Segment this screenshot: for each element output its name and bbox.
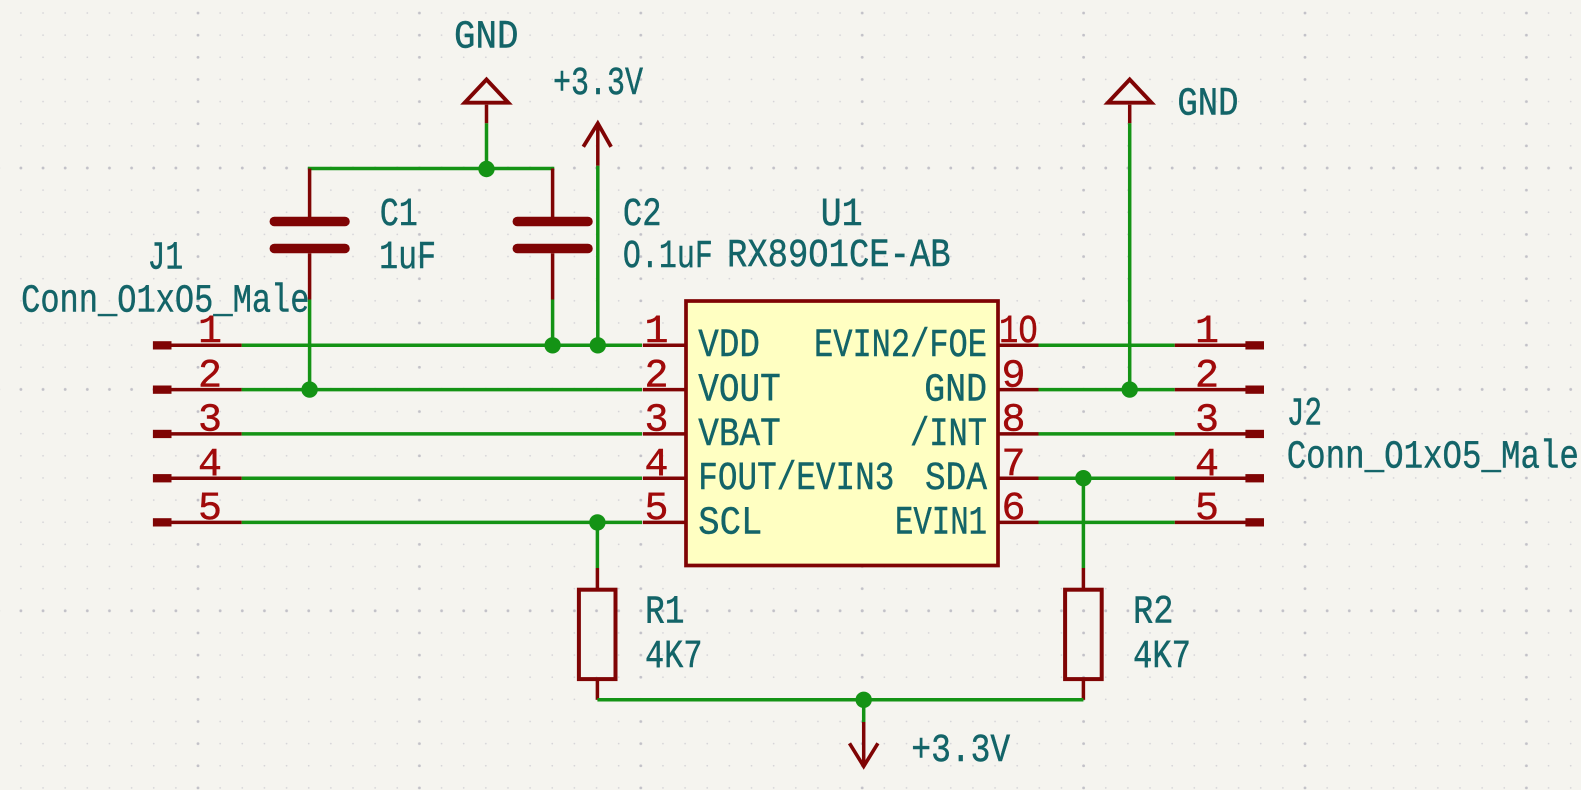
- svg-text:6: 6: [1002, 487, 1026, 532]
- svg-text:Conn_O1xO5_Male: Conn_O1xO5_Male: [1287, 436, 1579, 481]
- connector J2 pin 1: [1175, 310, 1264, 355]
- ground symbol (top left): [465, 80, 509, 124]
- U1 pin 4 (FOUT/EVIN3): [643, 443, 895, 502]
- svg-text:5: 5: [198, 487, 222, 532]
- ground symbol (top right): [1108, 80, 1152, 124]
- svg-text:4K7: 4K7: [1133, 635, 1191, 680]
- connector J2 pin 2: [1175, 354, 1264, 399]
- capacitor C2: [517, 169, 588, 300]
- svg-text:2: 2: [1195, 354, 1219, 399]
- svg-text:EVIN2/FOE: EVIN2/FOE: [814, 324, 987, 369]
- U1 pin 9 (GND): [924, 354, 1038, 413]
- svg-text:3: 3: [198, 399, 222, 444]
- svg-text:1O: 1O: [999, 310, 1038, 355]
- resistor R1: [579, 568, 616, 700]
- svg-text:4: 4: [1195, 443, 1219, 488]
- svg-text:J2: J2: [1287, 392, 1322, 437]
- wire J1 pin 4 to U1 FOUT/EVIN3: [242, 476, 642, 480]
- connector J2 pin 4: [1175, 443, 1264, 488]
- connector J2 pin 3: [1175, 399, 1264, 444]
- svg-text:SDA: SDA: [925, 457, 987, 502]
- svg-text:J1: J1: [148, 237, 184, 282]
- resistor R2: [1065, 568, 1102, 700]
- svg-text:O.1uF: O.1uF: [623, 235, 713, 280]
- connector J1 pin 3: [153, 399, 242, 444]
- U1 pin 5 (SCL): [643, 487, 763, 546]
- wire U1 EVIN2/FOE to J2 pin 1: [1039, 344, 1175, 348]
- svg-text:Conn_O1xO5_Male: Conn_O1xO5_Male: [21, 280, 309, 325]
- connector J1 pin 4: [153, 443, 242, 488]
- svg-text:R1: R1: [645, 591, 685, 636]
- wire C2 bottom to VDD net: [551, 300, 555, 346]
- svg-text:GND: GND: [924, 369, 987, 414]
- wire U1 /INT to J2 pin 3: [1039, 432, 1175, 436]
- power symbol +3.3V (bottom, pointing down): [850, 722, 878, 766]
- junction at GND / top rail: [478, 161, 494, 177]
- svg-text:FOUT/EVIN3: FOUT/EVIN3: [698, 457, 894, 502]
- wire U1 GND to J2 pin 2: [1039, 388, 1175, 392]
- svg-text:VDD: VDD: [698, 324, 760, 369]
- svg-text:/INT: /INT: [910, 413, 987, 458]
- wire U1 SDA to J2 pin 4: [1039, 476, 1175, 480]
- wire J1 pin 1 to U1 VDD: [242, 344, 642, 348]
- svg-text:EVIN1: EVIN1: [895, 501, 987, 546]
- capacitor C1: [274, 169, 345, 300]
- wire top rail between C1 and C2: [308, 167, 554, 171]
- wire bottom rail R1 to R2: [597, 698, 1083, 702]
- wire SDA net down to R2: [1082, 478, 1086, 568]
- power symbol +3.3V (top): [583, 123, 611, 166]
- svg-text:5: 5: [644, 487, 668, 532]
- wire from GND symbol down to top rail: [485, 123, 489, 168]
- wire SCL net down to R1: [596, 522, 600, 568]
- wire J1 pin 5 to U1 SCL: [242, 521, 642, 525]
- svg-text:1: 1: [644, 310, 668, 355]
- wire J1 pin 2 to U1 VOUT: [242, 388, 642, 392]
- svg-text:2: 2: [198, 354, 222, 399]
- connector J2 pin 5: [1175, 487, 1264, 532]
- svg-text:VBAT: VBAT: [698, 413, 781, 458]
- svg-text:VOUT: VOUT: [698, 369, 781, 414]
- svg-text:9: 9: [1002, 354, 1026, 399]
- junction +3.3V / VDD net: [590, 337, 606, 353]
- junction GND wire / GND net: [1122, 381, 1138, 397]
- junction SCL / R1: [589, 514, 605, 530]
- junction bottom rail / +3.3V: [856, 692, 872, 708]
- junction SDA / R2: [1075, 470, 1091, 486]
- svg-text:7: 7: [1002, 443, 1026, 488]
- svg-text:RX89O1CE-AB: RX89O1CE-AB: [727, 234, 951, 279]
- svg-text:U1: U1: [821, 193, 863, 238]
- svg-text:1: 1: [1195, 310, 1219, 355]
- svg-text:4: 4: [198, 443, 222, 488]
- IC U1 body: [686, 301, 998, 566]
- svg-text:R2: R2: [1133, 591, 1174, 636]
- svg-text:3: 3: [1195, 399, 1219, 444]
- wire junction down to +3.3V symbol: [862, 700, 866, 722]
- connector J1 pin 1: [153, 310, 242, 355]
- svg-text:SCL: SCL: [698, 501, 762, 546]
- svg-text:C1: C1: [380, 193, 418, 238]
- wire +3.3V down to VDD net: [596, 166, 600, 345]
- svg-text:4: 4: [644, 443, 668, 488]
- U1 pin 8 (/INT): [910, 399, 1039, 458]
- U1 pin 2 (VOUT): [643, 354, 781, 413]
- svg-text:GND: GND: [1177, 82, 1238, 127]
- svg-text:C2: C2: [623, 193, 662, 238]
- svg-text:3: 3: [644, 399, 668, 444]
- wire J1 pin 3 to U1 VBAT: [242, 432, 642, 436]
- junction C2 / VDD net: [544, 337, 560, 353]
- U1 pin 10 (EVIN2/FOE): [814, 310, 1039, 369]
- svg-text:2: 2: [644, 354, 668, 399]
- svg-text:5: 5: [1195, 487, 1219, 532]
- connector J1 pin 2: [153, 354, 242, 399]
- svg-text:4K7: 4K7: [645, 635, 703, 680]
- junction C1 / VOUT net: [301, 381, 317, 397]
- U1 pin 3 (VBAT): [643, 399, 781, 458]
- wire U1 EVIN1 to J2 pin 5: [1039, 521, 1175, 525]
- U1 pin 7 (SDA): [925, 443, 1039, 502]
- svg-text:+3.3V: +3.3V: [911, 729, 1010, 774]
- svg-text:1uF: 1uF: [379, 236, 436, 281]
- U1 pin 6 (EVIN1): [895, 487, 1039, 546]
- connector J1 pin 5: [153, 487, 242, 532]
- wire from GND symbol (right) down to GND net: [1128, 123, 1132, 389]
- svg-text:GND: GND: [454, 16, 519, 61]
- svg-text:+3.3V: +3.3V: [553, 62, 643, 107]
- wire C1 bottom to VOUT net: [308, 300, 312, 390]
- svg-text:8: 8: [1002, 399, 1026, 444]
- U1 pin 1 (VDD): [643, 310, 760, 369]
